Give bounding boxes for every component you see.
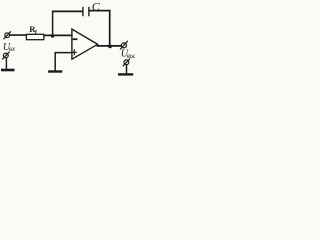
lower input terminal (grounded) xyxy=(2,52,9,60)
wire: non-inverting input down to ground xyxy=(54,52,56,71)
wire: input terminal to R1 xyxy=(10,34,27,36)
label Uвых xyxy=(121,49,138,60)
resistor R1 xyxy=(26,34,43,39)
ground (input side) xyxy=(1,69,15,72)
wire: feedback horizontal to capacitor left plate xyxy=(52,10,83,12)
capacitor C xyxy=(83,7,89,16)
plus input marker xyxy=(72,49,77,55)
label C xyxy=(92,0,101,13)
input terminal Uвх (top-left) xyxy=(4,31,11,39)
svg-text:1: 1 xyxy=(34,29,37,36)
wire: lower input terminal to ground xyxy=(5,58,7,70)
wire: feedback vertical down to output node xyxy=(109,10,111,47)
svg-text:вх: вх xyxy=(9,46,15,53)
wire: lower output terminal to ground xyxy=(126,65,128,74)
label R1 xyxy=(29,24,37,36)
op-amp U1 xyxy=(72,29,98,59)
ground (output side) xyxy=(118,73,133,75)
wire: R1 to op-amp inverting input xyxy=(44,34,72,36)
wire: feedback vertical from node A up xyxy=(52,11,54,36)
output terminal Uвых xyxy=(120,41,128,50)
minus input marker xyxy=(73,38,78,40)
wire: capacitor right plate to right corner xyxy=(89,10,111,12)
junction node B (output) xyxy=(108,45,112,49)
junction node A (inverting input / feedback tap) xyxy=(51,34,55,38)
wire: op-amp output to output terminal xyxy=(97,45,122,47)
svg-text:вых: вых xyxy=(127,53,135,60)
label Uвх xyxy=(3,42,15,53)
lower output terminal (grounded) xyxy=(123,59,130,67)
ground (op-amp non-inverting input) xyxy=(48,70,62,72)
wire: non-inverting input xyxy=(55,52,72,54)
